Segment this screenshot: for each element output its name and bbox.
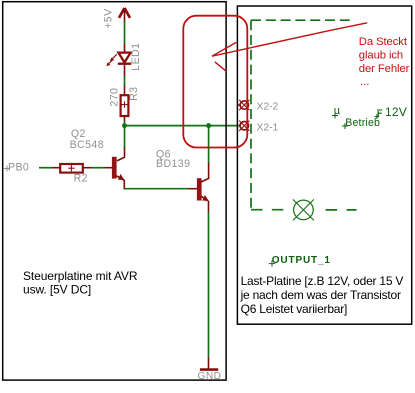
transistor Q6 <box>197 162 209 213</box>
svg-text:+5V: +5V <box>102 8 114 29</box>
wire PB0 to R2 <box>39 167 60 169</box>
net label OUTPUT_1 <box>269 255 331 267</box>
svg-text:usw. [5V DC]: usw. [5V DC] <box>23 282 91 296</box>
svg-text:BD139: BD139 <box>156 158 190 170</box>
svg-text:R3: R3 <box>128 87 140 101</box>
svg-text:X2-1: X2-1 <box>256 122 278 133</box>
svg-text:glaub ich: glaub ich <box>359 49 403 61</box>
net label Betrieb <box>342 117 380 129</box>
right panel (Last-Platine) border <box>237 6 411 324</box>
annotation arrow barb lower <box>215 62 227 72</box>
dashed net left edge <box>250 20 252 210</box>
svg-text:Q6 Leistet variierbar]: Q6 Leistet variierbar] <box>241 302 348 316</box>
svg-text:BC548: BC548 <box>70 139 104 151</box>
resistor R2 <box>60 164 83 173</box>
svg-text:X2-2: X2-2 <box>256 102 278 113</box>
lamp OUTPUT_1 <box>293 199 314 220</box>
svg-text:R2: R2 <box>74 172 88 184</box>
svg-text:Steuerplatine mit AVR: Steuerplatine mit AVR <box>23 269 138 283</box>
svg-text:Q2: Q2 <box>71 128 86 140</box>
junction at R3/Q2 collector <box>122 123 127 128</box>
wire LED1 to R3 <box>124 65 126 96</box>
svg-text:LED1: LED1 <box>130 43 142 71</box>
connector X2-1 <box>239 121 249 131</box>
svg-text:270: 270 <box>108 88 120 107</box>
LED LED1 <box>106 53 131 66</box>
wire Q6 emitter to GND <box>208 212 210 369</box>
wire Q2 emitter to Q6 base <box>124 188 197 190</box>
resistor R3 <box>121 95 129 121</box>
wire +5V to LED1 <box>124 21 126 53</box>
annotation circle (red rounded rect) <box>183 16 247 148</box>
dashed net top edge <box>251 19 351 21</box>
svg-text:PB0: PB0 <box>8 161 29 173</box>
connector X2-2 <box>238 100 250 110</box>
net mark F (12V flag) <box>375 110 383 119</box>
svg-text:...: ... <box>360 76 369 88</box>
svg-text:Last-Platine [z.B 12V, oder 15: Last-Platine [z.B 12V, oder 15 V <box>241 274 404 288</box>
svg-text:OUTPUT_1: OUTPUT_1 <box>272 255 331 266</box>
wire R3 to Q2 collector (vertical) <box>124 121 126 148</box>
annotation arrow line <box>212 23 367 56</box>
svg-text:Betrieb: Betrieb <box>345 117 380 129</box>
node PB0 <box>4 161 29 173</box>
svg-text:der Fehler: der Fehler <box>359 63 410 75</box>
dashed net bottom edge (left of lamp) <box>251 209 284 211</box>
annotation arrow barb upper <box>212 42 236 56</box>
svg-text:je nach dem was der Transistor: je nach dem was der Transistor <box>240 288 401 302</box>
svg-text:Da Steckt: Da Steckt <box>359 36 408 48</box>
left panel (Steuerplatine) border <box>3 2 226 380</box>
dashed net bottom edge (right of lamp) <box>326 209 357 211</box>
wire Q6 collector (vertical) <box>208 126 210 163</box>
ground GND <box>198 370 222 383</box>
wire R2 to Q2 base <box>83 167 112 169</box>
power +5V symbol <box>119 8 130 22</box>
net label mu mark <box>332 105 341 118</box>
junction at Q6 collector <box>206 123 211 128</box>
wire node to X2-1 (horizontal net) <box>125 125 241 127</box>
transistor Q2 <box>112 147 125 190</box>
svg-text:12V: 12V <box>385 105 407 119</box>
